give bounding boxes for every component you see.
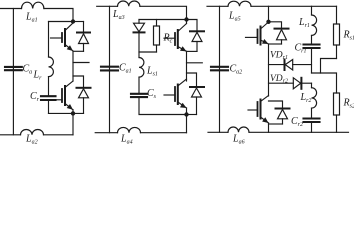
- wire midpoint vertical: [72, 51, 74, 81]
- wire top-left horizontal: [0, 8, 22, 10]
- svg-text:Lr1: Lr1: [298, 17, 310, 29]
- node collector top (dot): [266, 20, 270, 24]
- diode VD2 antiparallel bottom: [77, 88, 91, 114]
- capacitor Cr1: [304, 45, 320, 49]
- capacitor Ca: [5, 67, 22, 70]
- wire left rail: [109, 6, 111, 132]
- svg-text:VDr1: VDr1: [270, 51, 288, 62]
- inductor Lr1: [312, 6, 317, 44]
- capacitor Cr2: [304, 119, 320, 123]
- wire top to leg corner: [140, 6, 187, 23]
- wire snubber cross link: [312, 73, 337, 93]
- inductor La2: [21, 130, 44, 135]
- diode VD3 snubber: [134, 20, 145, 58]
- svg-text:Lr2: Lr2: [300, 92, 312, 104]
- wire collector node to aux branch: [49, 21, 74, 23]
- wire left rail: [12, 9, 14, 135]
- transistor V4 bottom IGBT: [164, 79, 187, 108]
- transistor V3 top IGBT: [164, 24, 187, 52]
- wire emitter to bottom: [72, 110, 74, 135]
- capacitor Ca2: [211, 67, 228, 71]
- svg-text:VDr2: VDr2: [270, 74, 288, 85]
- svg-text:Ca1: Ca1: [119, 63, 132, 75]
- inductor Lr2: [312, 83, 317, 118]
- wire top leg drop: [268, 6, 270, 22]
- svg-text:Rc: Rc: [163, 33, 173, 45]
- svg-text:Ls1: Ls1: [146, 66, 158, 78]
- capacitor Ca1: [101, 67, 118, 71]
- wire emitter to bottom: [186, 108, 188, 133]
- wire left rail: [219, 6, 221, 132]
- svg-text:Cr2: Cr2: [291, 116, 303, 128]
- svg-text:Ca2: Ca2: [230, 64, 243, 76]
- inductor Ls1: [139, 58, 144, 78]
- wire Cs to bottom node: [139, 97, 187, 114]
- wire bottom node line right: [187, 114, 197, 116]
- wire bottom horizontal: [95, 132, 117, 134]
- svg-text:La2: La2: [25, 134, 38, 146]
- resistor Rs1: [334, 6, 340, 58]
- wire lower collector link: [187, 73, 197, 87]
- diode VD5 antiparallel bottom: [190, 87, 204, 115]
- svg-text:Cr: Cr: [30, 91, 40, 103]
- node emitter bottom (dot): [184, 112, 188, 116]
- wire snubber bottom join: [139, 51, 157, 53]
- transistor V6 bottom IGBT: [248, 96, 269, 124]
- wire top across: [251, 5, 337, 7]
- diode VD1 antiparallel top: [73, 22, 90, 52]
- wire lower collector link: [73, 76, 84, 88]
- svg-text:Ca: Ca: [23, 64, 33, 76]
- transistor V1 top IGBT: [51, 23, 74, 51]
- wire midpoint stub right: [187, 62, 203, 64]
- wire midpoint vertical: [268, 44, 270, 96]
- wire aux mid: [48, 77, 50, 97]
- resistor Rs2: [334, 93, 340, 132]
- transistor V5 top IGBT: [246, 22, 269, 45]
- wire to Cs: [138, 77, 140, 94]
- inductor La4: [118, 127, 141, 132]
- svg-text:La1: La1: [25, 12, 38, 24]
- transistor V2 bottom IGBT: [57, 81, 74, 110]
- capacitor Cr: [41, 96, 56, 100]
- wire bottom horizontal: [208, 131, 228, 133]
- wire aux branch vertical upper: [48, 22, 50, 58]
- capacitor Cs: [131, 94, 147, 97]
- diode VD6 antiparallel top: [269, 22, 289, 44]
- wire Rs1 jog: [321, 59, 337, 74]
- wire midpoint stub right: [73, 62, 89, 64]
- wire Cr2 to bottom: [311, 122, 313, 132]
- wire top horizontal: [97, 5, 118, 7]
- wire Cr1 to VDr1 node: [311, 48, 313, 73]
- inductor La6: [228, 127, 249, 132]
- wire aux branch lower: [48, 100, 50, 113]
- wire bottom across: [249, 131, 349, 133]
- wire bottom to leg: [141, 132, 187, 134]
- inductor La3: [118, 1, 140, 6]
- wire top horizontal: [207, 5, 228, 7]
- wire snubber top link: [139, 19, 187, 21]
- diode VDr2: [269, 78, 312, 89]
- wire emitter to bottom: [268, 123, 270, 132]
- wire bottom to leg: [44, 134, 74, 136]
- inductor Lr: [49, 57, 54, 77]
- wire top to leg corner: [44, 9, 73, 22]
- svg-text:Cs: Cs: [147, 88, 157, 100]
- wire collector node to diode: [73, 21, 84, 23]
- node collector top (dot): [184, 17, 188, 21]
- diode VD7 antiparallel bottom: [269, 101, 290, 124]
- svg-text:La4: La4: [120, 134, 133, 146]
- inductor La5: [228, 1, 251, 6]
- node emitter bottom (dot): [71, 111, 75, 115]
- diode VD4 antiparallel top: [187, 20, 205, 52]
- resistor Rc: [154, 20, 160, 53]
- svg-text:La5: La5: [228, 11, 241, 23]
- svg-text:Rs1: Rs1: [343, 30, 354, 42]
- inductor La1: [22, 2, 44, 8]
- diode VDr1: [269, 60, 312, 71]
- wire bottom-left horizontal: [0, 134, 21, 136]
- wire bottom node line: [49, 112, 84, 114]
- wire midpoint vertical: [186, 51, 188, 81]
- svg-text:La6: La6: [232, 134, 245, 146]
- svg-text:Lr: Lr: [33, 70, 43, 82]
- svg-text:La3: La3: [112, 9, 125, 21]
- svg-text:Rs2: Rs2: [343, 98, 354, 110]
- node collector top (dot): [71, 19, 75, 23]
